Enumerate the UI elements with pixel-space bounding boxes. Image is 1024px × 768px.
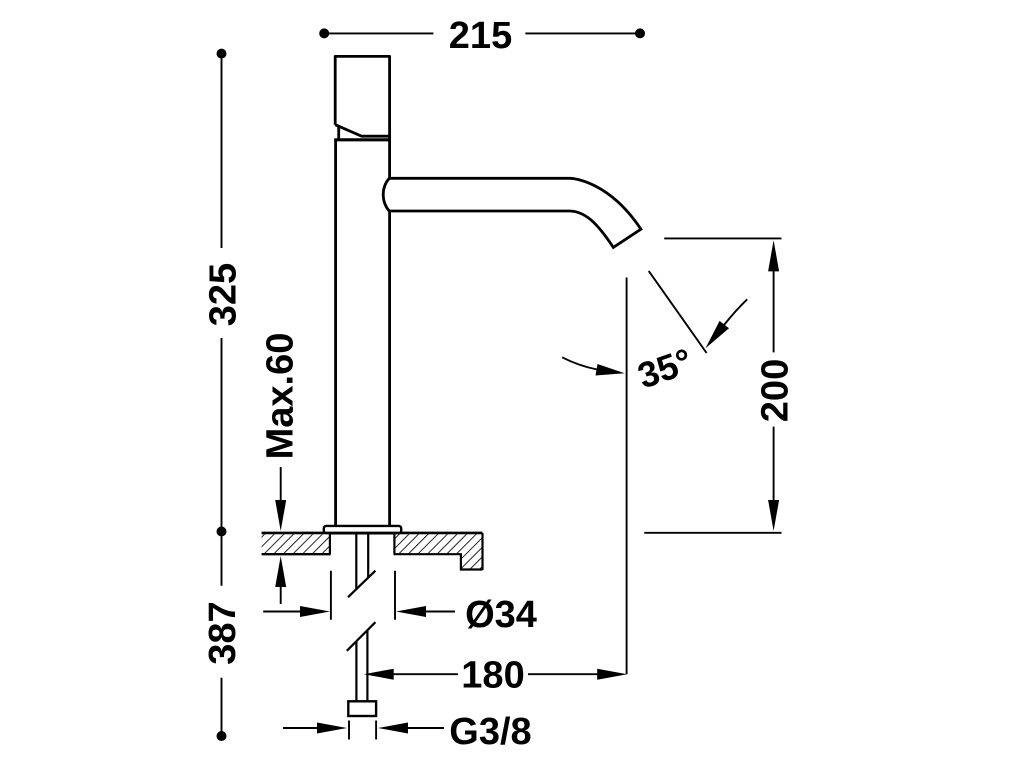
G3/8 connector nut — [348, 701, 376, 716]
svg-text:G3/8: G3/8 — [449, 711, 531, 753]
curved arrow left (pointing to vertical line) — [562, 357, 597, 369]
svg-text:180: 180 — [461, 655, 524, 697]
dimension Max.60: upper arrow (down) — [280, 467, 282, 502]
35deg reference diagonal line — [649, 271, 707, 353]
base flange — [324, 526, 401, 533]
left dimension line dots (top, deck, bottom) — [217, 49, 227, 59]
dimension 180: right arrow (right-pointing at vertical ref line) — [528, 673, 600, 675]
break slash 2 — [347, 622, 376, 651]
dimension O34: left arrow (right-pointing) — [263, 611, 302, 613]
faucet handle (lever) — [335, 56, 389, 139]
spout (tube with rounded back cap and 35deg cut tip) — [383, 178, 641, 248]
svg-text:Ø34: Ø34 — [465, 594, 537, 636]
dimension 325: line segments — [221, 54, 223, 532]
vertical reference line from spout tip — [626, 278, 628, 675]
dimension Max.60: lower arrow (up) — [275, 556, 286, 587]
dimension 215: left dot — [319, 28, 329, 38]
dimension O34: right arrow (left-pointing) — [396, 606, 426, 617]
curved arrow right (pointing to diagonal) — [724, 299, 747, 324]
dimension O34: extension lines — [331, 571, 395, 620]
svg-text:Max.60: Max.60 — [260, 333, 302, 460]
dimension 200: vertical line with arrows — [768, 240, 779, 271]
supply shank lower segment — [356, 630, 367, 701]
countertop deck: top surface line — [262, 532, 483, 535]
dimension 215: right dot — [635, 28, 645, 38]
svg-text:200: 200 — [755, 359, 797, 422]
break slash 1 — [348, 571, 375, 598]
dimension 215: lines — [324, 32, 640, 34]
dimension 200: top reference line — [664, 237, 781, 239]
supply shank upper segment — [356, 534, 368, 589]
dimension 200: bottom reference line — [644, 532, 781, 534]
dimension G3/8: left arrow — [283, 727, 320, 729]
dimension G3/8: right arrow — [378, 723, 408, 734]
faucet body column — [334, 140, 391, 526]
deck right section with hatching and edge step — [394, 533, 483, 570]
dimension 387: line segments — [221, 532, 223, 737]
deck left section with hatching — [262, 534, 331, 554]
dimension G3/8: extension ticks — [349, 721, 376, 740]
svg-text:325: 325 — [202, 263, 244, 326]
dimension 180: left arrow (left-pointing at faucet axis) — [364, 669, 394, 680]
svg-text:387: 387 — [202, 601, 244, 664]
svg-text:215: 215 — [449, 15, 512, 57]
